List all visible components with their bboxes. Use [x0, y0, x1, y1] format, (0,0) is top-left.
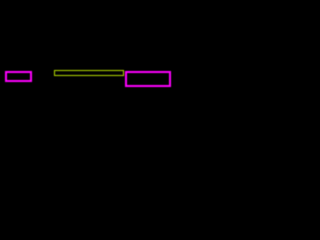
- right magenta rectangle: [125, 71, 171, 87]
- middle yellow-green bar: [54, 70, 124, 76]
- left magenta rectangle: [5, 71, 32, 82]
